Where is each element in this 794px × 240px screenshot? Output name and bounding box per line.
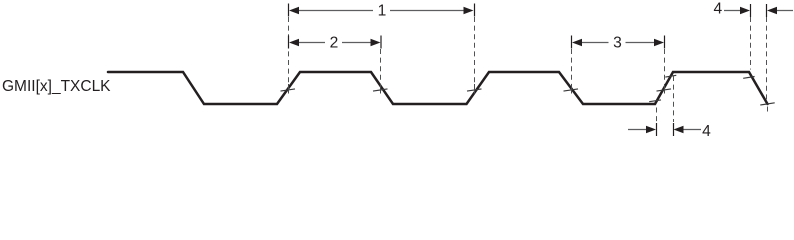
- svg-text:4: 4: [713, 0, 722, 17]
- dashed guide at rise3 midpoint x=664: [664, 49, 666, 84]
- guide terminal at fall2 mid: [380, 84, 382, 94]
- svg-text:GMII[x]_TXCLK: GMII[x]_TXCLK: [2, 78, 111, 95]
- arrowhead 3 right: [654, 39, 664, 47]
- guide terminal at rise1 mid: [288, 84, 290, 94]
- solid guide terminals crossing the mid-level ticks: [289, 84, 665, 94]
- tick: fall2 mid-level crossing: [373, 89, 388, 91]
- dimension arrow 2 lines: [297, 42, 325, 44]
- arrowheads: [289, 7, 777, 134]
- dashed guide at fall4 top corner x=750: [750, 17, 752, 70]
- dimension arrow 1 (period), lines: [297, 11, 793, 130]
- tick: rise3 top corner: [665, 75, 676, 77]
- end bar arrow1 left: [288, 4, 290, 17]
- dashed guide at fall2 midpoint x=380.5: [380, 49, 382, 84]
- dimension end bars: [289, 4, 767, 137]
- tick: rise2 mid-level crossing: [467, 89, 482, 91]
- arrowhead 1 right: [464, 7, 474, 15]
- end bar arrow2 right: [380, 36, 382, 49]
- end bar arrow4top left: [750, 4, 752, 17]
- dimension arrow 4 top lines: [724, 10, 741, 12]
- tick: fall4 bottom corner: [760, 103, 774, 105]
- arrowhead 4 top left-pointing: [767, 7, 777, 15]
- tick: fall3 mid-level crossing: [564, 89, 579, 91]
- end bar arrow4top right: [766, 4, 768, 17]
- tick: rise1 mid-level crossing: [281, 75, 775, 105]
- arrowhead 2 right: [371, 39, 381, 47]
- guide terminal at fall3 mid: [571, 84, 573, 94]
- tick: rise3 bottom corner: [649, 100, 661, 102]
- end bar arrow4bottom right: [673, 123, 675, 136]
- end bar arrow3 right: [664, 36, 666, 49]
- tick: fall4 top corner: [743, 77, 754, 79]
- dashed guide at rise2 midpoint x=474: [474, 17, 476, 84]
- arrowhead 2 left: [289, 39, 299, 47]
- dimension arrow 3 lines: [580, 42, 609, 44]
- arrowhead 4 bottom right-pointing: [646, 126, 656, 134]
- dashed guide at rise3 bottom corner x=656: [656, 108, 658, 123]
- dashed guide at rise3 top corner x=673: [673, 76, 675, 122]
- dashed guide at fall4 bottom corner x=766.5: [766, 17, 768, 100]
- arrowhead 1 left: [289, 7, 299, 15]
- svg-text:3: 3: [613, 35, 622, 52]
- end bar arrow2 left: [288, 36, 290, 49]
- arrowhead 4 top right-pointing: [740, 7, 750, 15]
- dashed guide at fall3 midpoint x=571: [571, 49, 573, 84]
- end bar arrow1 right: [474, 4, 476, 17]
- dimension arrow 4 bottom lines: [628, 129, 647, 131]
- tick: rise3 mid-level crossing: [657, 89, 672, 91]
- wire: GMII[x]_TXCLK waveform trace: [108, 72, 768, 104]
- guide terminal at rise2 mid: [474, 84, 476, 94]
- arrowhead 4 bottom left-pointing: [674, 126, 684, 134]
- arrowhead 3 left: [572, 39, 582, 47]
- dashed guide stub below waveform end: [767, 107, 769, 113]
- svg-text:4: 4: [702, 123, 711, 136]
- svg-text:2: 2: [330, 35, 339, 52]
- end bar arrow4bottom left: [656, 123, 658, 136]
- guide terminal at rise3 mid: [664, 84, 666, 94]
- svg-text:1: 1: [378, 3, 387, 20]
- end bar arrow3 left: [571, 36, 573, 49]
- dashed guide at rise1 midpoint x=288: [289, 17, 768, 122]
